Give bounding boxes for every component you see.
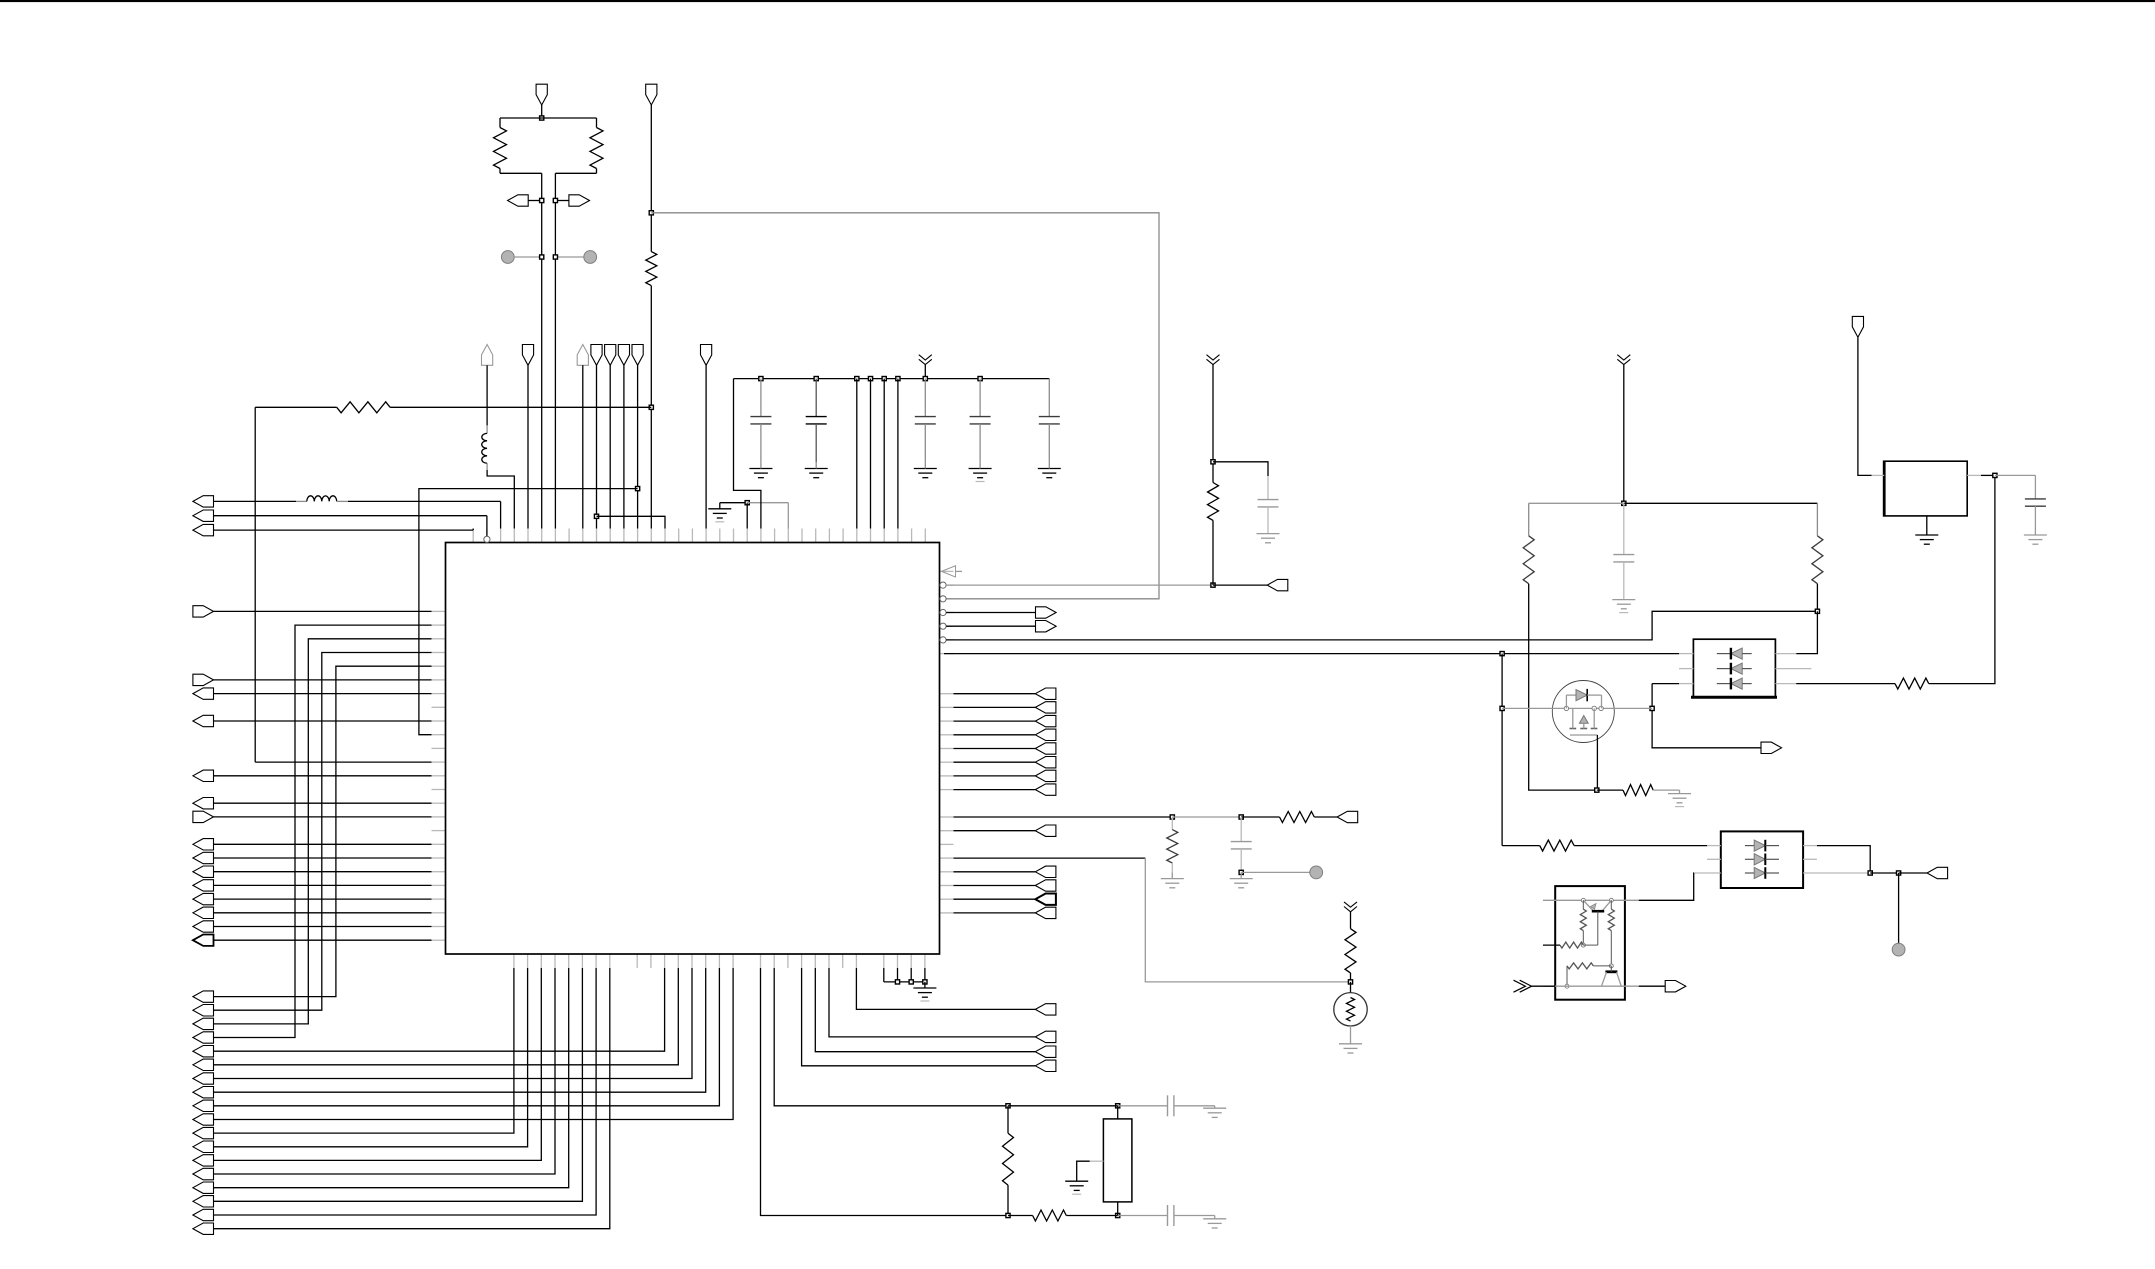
connector P3 [569, 195, 590, 206]
diode array D2 pins [1707, 845, 1721, 847]
wire [1501, 654, 1503, 846]
junction [923, 980, 927, 984]
wire [954, 720, 1036, 722]
wire [609, 365, 611, 528]
connector P31_18 [193, 1223, 214, 1234]
connector P39_3 [1035, 894, 1056, 905]
junction [1116, 1213, 1120, 1217]
wire [527, 365, 529, 528]
resistor R5 [1007, 1106, 1009, 1133]
wire [214, 968, 556, 1174]
resistor R1 [499, 118, 501, 128]
resistor R11 [1528, 503, 1530, 536]
connector P36_7 [1035, 770, 1056, 781]
ground [2024, 534, 2047, 536]
inductor L2 [486, 425, 488, 433]
wire [1090, 1160, 1104, 1162]
wire net A1 [946, 584, 1213, 586]
power chevron VCC [1617, 355, 1630, 360]
pin bubble [940, 582, 946, 588]
page top border [0, 0, 2155, 2]
connector P31_13 [193, 1155, 214, 1166]
wire [214, 968, 569, 1188]
connector P5 [193, 496, 214, 507]
connector P31_16 [193, 1196, 214, 1207]
capacitor C9 [1240, 817, 1242, 842]
wire [214, 871, 432, 873]
ground [1339, 1043, 1362, 1045]
wire [650, 286, 652, 529]
wire [954, 734, 1036, 736]
connector P36_2 [1035, 702, 1056, 713]
junction [1500, 652, 1504, 656]
capacitor C10 [1623, 503, 1625, 554]
connector P32_4 [1035, 1004, 1056, 1015]
diode array D1 [1693, 639, 1775, 697]
IC U1 pin stubs [432, 529, 954, 969]
wire [954, 748, 1036, 750]
junction [1116, 1104, 1120, 1108]
connector P32_1 [1035, 1060, 1056, 1071]
connector P44 [1665, 981, 1686, 992]
wire [954, 775, 1036, 777]
testpoint TP2 [584, 251, 597, 264]
junction [855, 377, 859, 381]
wire [815, 968, 1035, 1052]
wire [720, 502, 747, 504]
junction [1239, 815, 1243, 819]
wire [214, 639, 432, 1024]
junction [636, 487, 640, 491]
connector P30 [193, 935, 214, 946]
wire [528, 200, 542, 202]
connector P1 [536, 84, 547, 105]
capacitor C2 [815, 379, 817, 417]
wire [954, 912, 1036, 914]
resistor R8 [1280, 812, 1315, 823]
wire [1574, 845, 1707, 847]
connector P31_4 [193, 1032, 214, 1043]
wire [214, 968, 679, 1065]
connector P31_12 [193, 1141, 214, 1153]
wire [214, 610, 432, 612]
wire [214, 653, 432, 1011]
wire [897, 379, 899, 529]
wire [1213, 584, 1267, 586]
pin bubble [940, 609, 946, 615]
pin indicator [942, 566, 956, 577]
capacitor C1 [760, 379, 762, 417]
connector P40 [1761, 742, 1782, 753]
junction [978, 377, 982, 381]
connector P21 [193, 798, 214, 809]
transistor Q1 MOSFET [1552, 681, 1614, 743]
crystal Y1 [1103, 1119, 1132, 1202]
connector P25 [193, 866, 214, 877]
junction [1239, 870, 1243, 874]
wire [924, 365, 926, 379]
diode array D1 pins [1679, 653, 1693, 655]
wire net R3out [946, 612, 1035, 614]
wire [214, 968, 665, 1051]
junction [649, 405, 653, 409]
wire [596, 365, 598, 528]
connector P42 [1927, 867, 1948, 878]
wire net R4out [946, 625, 1035, 627]
wire [337, 500, 348, 502]
pin bubble [940, 596, 946, 602]
wire [214, 529, 474, 531]
wire [1652, 684, 1762, 748]
wire net CLK [651, 213, 1159, 599]
connector P32_2 [1035, 1046, 1056, 1057]
wire [829, 968, 1035, 1037]
connector P7 [193, 524, 214, 535]
wire [1639, 873, 1694, 900]
wire [214, 968, 583, 1201]
connector P20 [193, 770, 214, 781]
ground [805, 468, 828, 470]
pin bubble [484, 536, 490, 542]
connector P39_4 [1035, 907, 1056, 918]
resistor R10 [1350, 912, 1352, 929]
connector P31_6 [193, 1059, 214, 1070]
connector P36_5 [1035, 743, 1056, 754]
ground [969, 468, 992, 470]
junction [1348, 980, 1352, 984]
capacitor C11 [2034, 475, 2036, 499]
ground [914, 468, 937, 470]
testpoint TP4 [1892, 943, 1905, 956]
connector P27 [193, 893, 214, 904]
ground [1679, 790, 1681, 794]
junction [540, 116, 544, 120]
wire [1899, 872, 1927, 874]
junction [882, 377, 886, 381]
junction [759, 377, 763, 381]
connector P29 [193, 921, 214, 932]
connector P31_9 [193, 1100, 214, 1111]
wire [1796, 611, 1817, 653]
connector P36_6 [1035, 757, 1056, 768]
wire [254, 407, 256, 762]
wire [1870, 872, 1898, 874]
connector P19 [193, 715, 214, 726]
connector P18 [193, 688, 214, 699]
wire [870, 379, 872, 529]
connector P11 [591, 345, 602, 366]
wire [883, 968, 885, 982]
wire [255, 406, 337, 408]
wire [214, 968, 693, 1079]
capacitor C6 [1118, 1105, 1168, 1107]
wire [214, 968, 610, 1229]
wire [500, 117, 597, 119]
ground [719, 503, 721, 509]
connector P26 [193, 880, 214, 891]
junction [896, 377, 900, 381]
connector P32_3 [1035, 1031, 1056, 1042]
connector P31_7 [193, 1073, 214, 1084]
junction [1170, 815, 1174, 819]
capacitor C7 [1118, 1215, 1168, 1217]
wire [746, 503, 748, 529]
testpoint TP3 [1310, 866, 1323, 879]
wire [1929, 475, 1995, 683]
wire [954, 706, 1036, 708]
wire [1532, 985, 1556, 987]
wire [1623, 365, 1625, 504]
ground [1257, 533, 1280, 535]
junction [1006, 1213, 1010, 1217]
connector P12 [605, 345, 616, 366]
resistor R6 [1008, 1215, 1033, 1217]
wire [1596, 735, 1598, 790]
connector P15 [701, 345, 712, 366]
ground [1214, 1216, 1216, 1219]
connector P31_14 [193, 1168, 214, 1180]
resistor R9 [1171, 817, 1173, 830]
wire [555, 200, 569, 202]
wire [214, 775, 432, 777]
wire [214, 968, 528, 1147]
resistor R7 [1208, 483, 1219, 521]
ground [1612, 599, 1635, 601]
junction [1622, 501, 1626, 505]
resistor R14 [1597, 789, 1623, 791]
wire [214, 968, 706, 1092]
resistor R12 [1816, 503, 1818, 536]
wire [1241, 871, 1310, 873]
connector P8 [482, 345, 493, 366]
connector P24 [193, 852, 214, 863]
wire [1967, 474, 1981, 476]
connector P17 [193, 674, 214, 685]
wire [1817, 846, 1870, 873]
wire [1529, 584, 1597, 790]
wire [1995, 474, 2036, 476]
connector P28 [193, 907, 214, 918]
junction [1595, 788, 1599, 792]
wire [623, 365, 625, 528]
wire [500, 172, 542, 174]
wire [954, 761, 1036, 763]
wire [1212, 365, 1214, 483]
wire [214, 939, 432, 941]
ground [1161, 878, 1184, 880]
wire [1213, 462, 1268, 476]
connector P39_2 [1035, 880, 1056, 891]
wire net NTC [954, 857, 1146, 859]
connector P36_8 [1035, 784, 1056, 795]
wire [637, 365, 639, 528]
wire [856, 379, 858, 529]
wire [1898, 873, 1900, 943]
wire [214, 968, 734, 1120]
junction [1500, 706, 1504, 710]
resistor R2 [596, 118, 598, 128]
optocoupler U3 [1555, 886, 1625, 1000]
connector P31_11 [193, 1127, 214, 1138]
connector P31_10 [193, 1114, 214, 1125]
connector P34 [1036, 607, 1057, 618]
resistor R4 [337, 402, 390, 413]
wire [582, 365, 584, 528]
wire [487, 470, 514, 529]
ground [924, 982, 926, 988]
connector P16 [193, 606, 214, 617]
junction [868, 377, 872, 381]
wire [214, 515, 487, 517]
wire [214, 666, 432, 996]
pin bubble [940, 623, 946, 629]
IC U1 [446, 543, 940, 955]
wire [214, 898, 432, 900]
wire [1314, 816, 1337, 818]
wire net PWM1 [946, 611, 1817, 640]
power chevron [1344, 902, 1357, 907]
capacitor C5 [1048, 379, 1050, 417]
connector P31_8 [193, 1087, 214, 1098]
ground [1065, 1180, 1088, 1182]
wire [774, 968, 1008, 1106]
wire net PWM2 [944, 653, 1679, 655]
inductor L1 [307, 496, 337, 502]
wire [761, 968, 1009, 1216]
junction [1211, 460, 1215, 464]
wire [486, 365, 488, 425]
wire [214, 816, 432, 818]
power chevron [1207, 355, 1220, 360]
junction [540, 255, 544, 259]
wire [954, 693, 1036, 695]
connector P10 [577, 345, 588, 366]
wire [1212, 520, 1214, 585]
junction [923, 377, 927, 381]
ground [749, 468, 772, 470]
junction [895, 980, 899, 984]
wire [1624, 502, 1818, 504]
pin bubble [940, 637, 946, 643]
wire [954, 898, 1036, 900]
junction [553, 255, 557, 259]
wire [214, 679, 432, 681]
wire [1639, 985, 1667, 987]
wire [954, 885, 1036, 887]
optocoupler internals [1543, 899, 1639, 901]
diode array D2 [1721, 831, 1803, 888]
connector P36_1 [1035, 688, 1056, 699]
connector P31_2 [193, 1005, 214, 1017]
connector P38 [1035, 825, 1056, 836]
wire [214, 884, 432, 886]
wire [954, 789, 1036, 791]
connector P31_5 [193, 1046, 214, 1057]
wire [214, 912, 432, 914]
wire [214, 968, 720, 1106]
wire [514, 256, 542, 258]
connector P31_1 [193, 991, 214, 1002]
connector P23 [193, 839, 214, 850]
wire [214, 926, 432, 928]
connector P39_1 [1035, 866, 1056, 877]
wire VDD bus [734, 378, 1050, 380]
testpoint TP1 [501, 251, 514, 264]
voltage regulator U2 [1884, 461, 1967, 516]
capacitor C3 [924, 379, 926, 417]
junction [540, 198, 544, 202]
connector P35 [1036, 621, 1057, 632]
connector P2 [508, 195, 529, 206]
connector P36_3 [1035, 715, 1056, 726]
capacitor C8 [1267, 476, 1269, 500]
connector P13 [618, 345, 629, 366]
junction [553, 198, 557, 202]
ground [1214, 1106, 1216, 1108]
connector P43 input [1514, 980, 1526, 992]
wire [214, 802, 432, 804]
wire [214, 968, 597, 1215]
junction [1006, 1104, 1010, 1108]
wire [214, 857, 432, 859]
wire net ADC [954, 816, 1173, 818]
wire [705, 365, 707, 528]
junction [814, 377, 818, 381]
resistor R15 [1540, 840, 1574, 851]
wire [419, 489, 638, 735]
connector P37 [1337, 811, 1358, 822]
wire [747, 502, 788, 504]
junction [649, 211, 653, 215]
wire [1502, 845, 1540, 847]
connector P6 [193, 510, 214, 521]
connector P31_17 [193, 1209, 214, 1220]
wire [214, 843, 432, 845]
wire [214, 720, 432, 722]
connector P31_3 [193, 1018, 214, 1029]
wire [856, 968, 1035, 1009]
wire [597, 516, 666, 528]
junction [745, 501, 749, 505]
junction [1897, 871, 1901, 875]
wire [214, 968, 542, 1160]
junction [1815, 609, 1819, 613]
wire [1858, 337, 1872, 475]
connector P14 [632, 345, 643, 366]
connector P33 [1267, 579, 1288, 590]
junction [1993, 473, 1997, 477]
connector P4 [646, 84, 657, 105]
junction [1868, 871, 1872, 875]
wire [650, 105, 652, 252]
connector P41 [1852, 316, 1863, 337]
junction [909, 980, 913, 984]
junction [1650, 706, 1654, 710]
wire [954, 871, 1036, 873]
capacitor C4 [979, 379, 981, 417]
wire [1796, 683, 1895, 685]
ground [1926, 516, 1928, 535]
resistor R3 [646, 252, 657, 286]
thermistor RT1 [1350, 982, 1352, 993]
wire [541, 105, 543, 118]
wire [555, 256, 583, 258]
resistor R13 [1895, 678, 1929, 689]
wire [883, 379, 885, 529]
connector P22 [193, 811, 214, 822]
wire [214, 625, 432, 1037]
wire [214, 500, 297, 502]
